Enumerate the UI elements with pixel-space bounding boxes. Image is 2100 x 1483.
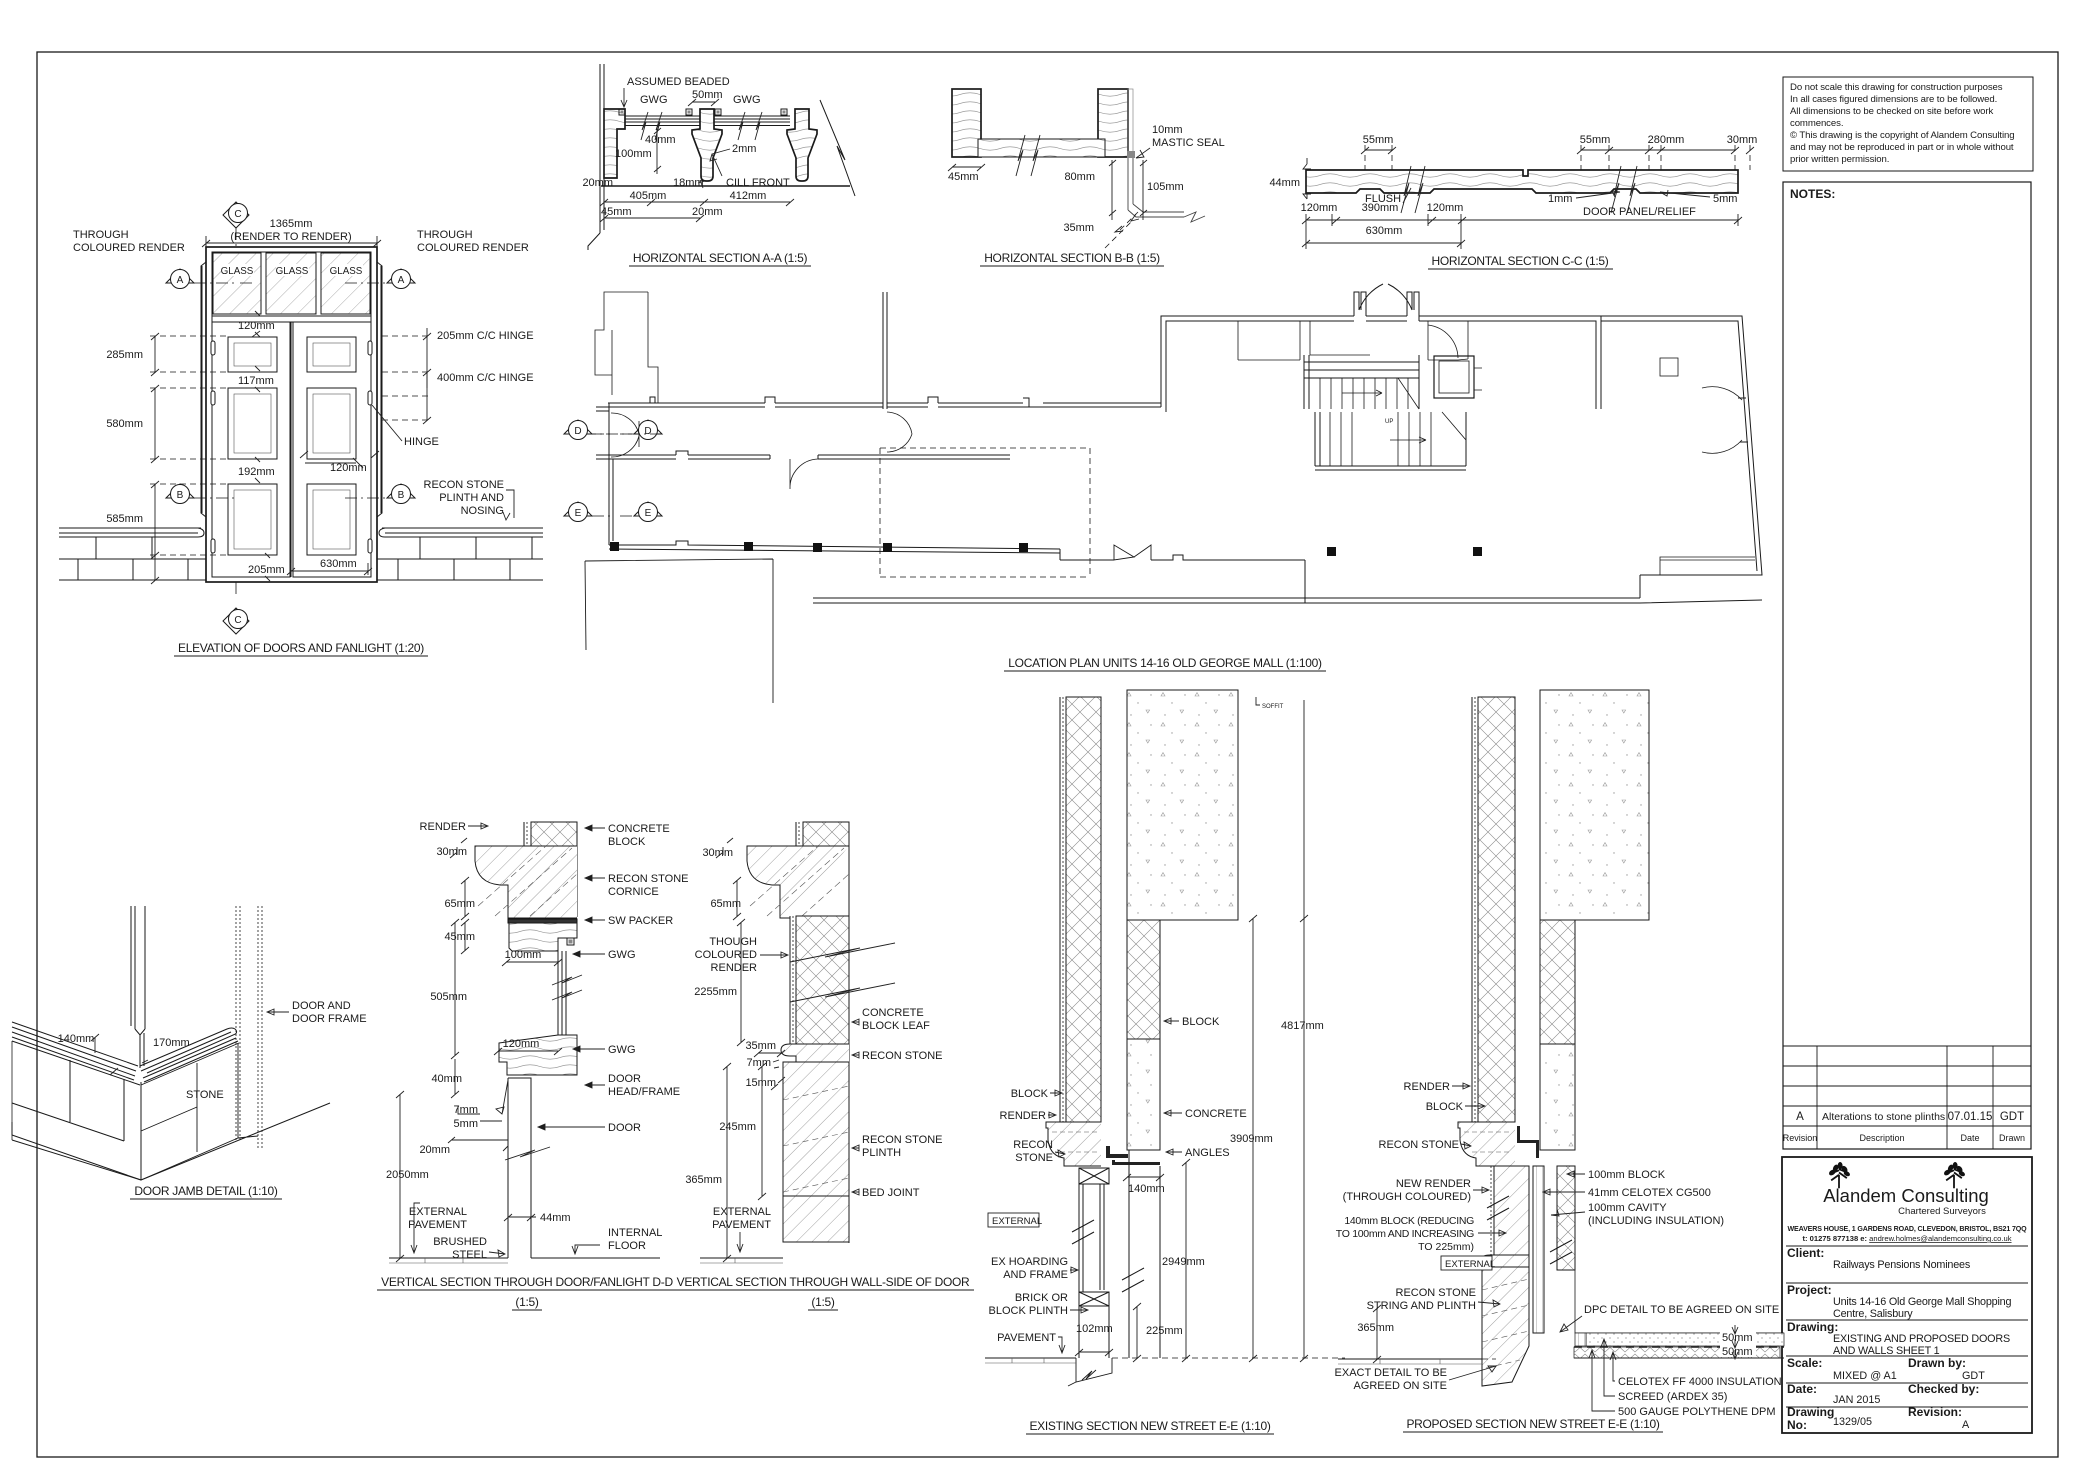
svg-text:140mm: 140mm [1128, 1183, 1165, 1195]
svg-text:35mm: 35mm [745, 1040, 776, 1052]
svg-text:50mm: 50mm [1722, 1346, 1753, 1358]
svg-text:BRUSHED: BRUSHED [433, 1236, 487, 1248]
svg-text:DPC DETAIL TO BE AGREED ON SIT: DPC DETAIL TO BE AGREED ON SITE [1584, 1304, 1779, 1316]
svg-text:BLOCK PLINTH: BLOCK PLINTH [989, 1305, 1069, 1317]
svg-text:Do not scale this drawing for: Do not scale this drawing for constructi… [1790, 82, 2003, 93]
svg-text:GDT: GDT [1962, 1370, 1985, 1382]
svg-text:BLOCK: BLOCK [1011, 1088, 1049, 1100]
svg-text:EXTERNAL: EXTERNAL [1445, 1259, 1495, 1270]
svg-text:NEW RENDER: NEW RENDER [1396, 1178, 1471, 1190]
svg-text:BLOCK: BLOCK [1182, 1016, 1220, 1028]
svg-text:BRICK OR: BRICK OR [1015, 1292, 1068, 1304]
svg-text:THROUGH: THROUGH [73, 229, 129, 241]
svg-text:STONE: STONE [186, 1089, 224, 1101]
svg-text:HORIZONTAL SECTION C-C (1:5): HORIZONTAL SECTION C-C (1:5) [1432, 254, 1609, 268]
svg-text:Date:: Date: [1787, 1382, 1817, 1396]
svg-text:Units 14-16 Old George Mall Sh: Units 14-16 Old George Mall Shopping [1833, 1296, 2011, 1308]
svg-text:630mm: 630mm [320, 558, 357, 570]
svg-text:65mm: 65mm [710, 898, 741, 910]
svg-text:120mm: 120mm [503, 1038, 540, 1050]
svg-text:GLASS: GLASS [221, 266, 254, 277]
svg-text:7mm: 7mm [747, 1057, 771, 1069]
svg-text:Revision: Revision [1783, 1133, 1818, 1143]
svg-text:STEEL: STEEL [452, 1249, 487, 1261]
svg-text:365mm: 365mm [1357, 1322, 1394, 1334]
svg-text:RECON: RECON [1013, 1139, 1053, 1151]
svg-text:630mm: 630mm [1366, 225, 1403, 237]
svg-text:EXISTING SECTION NEW STREET E-: EXISTING SECTION NEW STREET E-E (1:10) [1029, 1419, 1270, 1433]
svg-text:No:: No: [1787, 1418, 1807, 1432]
svg-text:117mm: 117mm [238, 375, 274, 387]
svg-text:HORIZONTAL SECTION B-B (1:5): HORIZONTAL SECTION B-B (1:5) [984, 251, 1160, 265]
svg-text:ELEVATION OF DOORS AND FANLIGH: ELEVATION OF DOORS AND FANLIGHT (1:20) [178, 641, 424, 655]
svg-text:COLOURED RENDER: COLOURED RENDER [417, 242, 529, 254]
svg-text:THOUGH: THOUGH [709, 936, 757, 948]
svg-text:RENDER: RENDER [1404, 1081, 1451, 1093]
svg-text:EXTERNAL: EXTERNAL [992, 1216, 1042, 1227]
svg-text:505mm: 505mm [430, 991, 467, 1003]
svg-text:AGREED ON SITE: AGREED ON SITE [1353, 1380, 1447, 1392]
svg-text:55mm: 55mm [1363, 134, 1394, 146]
svg-text:EXACT DETAIL TO BE: EXACT DETAIL TO BE [1335, 1367, 1447, 1379]
svg-text:DOOR AND: DOOR AND [292, 1000, 351, 1012]
svg-text:2mm: 2mm [732, 143, 756, 155]
svg-text:120mm: 120mm [1301, 202, 1338, 214]
svg-text:VERTICAL SECTION THROUGH DOOR/: VERTICAL SECTION THROUGH DOOR/FANLIGHT D… [381, 1275, 673, 1289]
svg-text:192mm: 192mm [238, 466, 275, 478]
svg-text:5mm: 5mm [454, 1118, 478, 1130]
svg-text:65mm: 65mm [444, 898, 475, 910]
svg-text:205mm C/C HINGE: 205mm C/C HINGE [437, 330, 534, 342]
svg-text:GWG: GWG [640, 94, 668, 106]
svg-text:GWG: GWG [608, 1044, 636, 1056]
svg-text:102mm: 102mm [1076, 1323, 1113, 1335]
svg-text:DOOR: DOOR [608, 1073, 641, 1085]
svg-text:DOOR FRAME: DOOR FRAME [292, 1013, 367, 1025]
svg-text:and may not be reproduced in p: and may not be reproduced in part or in … [1790, 142, 2014, 153]
svg-text:Alterations to stone plinths: Alterations to stone plinths [1822, 1111, 1945, 1123]
svg-text:GLASS: GLASS [276, 266, 309, 277]
svg-text:3909mm: 3909mm [1230, 1133, 1273, 1145]
svg-text:RENDER: RENDER [420, 821, 467, 833]
svg-text:RECON STONE: RECON STONE [424, 479, 504, 491]
svg-text:Drawing: Drawing [1787, 1405, 1834, 1419]
svg-text:Drawing:: Drawing: [1787, 1320, 1838, 1334]
svg-text:(1:5): (1:5) [515, 1295, 538, 1309]
svg-text:Chartered Surveyors: Chartered Surveyors [1898, 1206, 1986, 1217]
svg-text:40mm: 40mm [645, 134, 676, 146]
svg-text:In all cases figured dimension: In all cases figured dimensions are to b… [1790, 94, 1997, 105]
svg-text:35mm: 35mm [1063, 222, 1094, 234]
svg-text:(INCLUDING INSULATION): (INCLUDING INSULATION) [1588, 1215, 1724, 1227]
svg-text:A: A [1796, 1111, 1804, 1123]
svg-text:Alandem Consulting: Alandem Consulting [1823, 1185, 1989, 1206]
svg-text:Project:: Project: [1787, 1283, 1832, 1297]
svg-text:MASTIC SEAL: MASTIC SEAL [1152, 137, 1225, 149]
svg-text:Date: Date [1960, 1133, 1979, 1143]
svg-text:SOFFIT: SOFFIT [1262, 704, 1284, 710]
svg-text:t: 01275 877138 e: andrew.hol: t: 01275 877138 e: andrew.holmes@alandem… [1802, 1234, 2011, 1243]
svg-text:prior written permission.: prior written permission. [1790, 154, 1889, 165]
svg-text:390mm: 390mm [1362, 202, 1399, 214]
svg-text:Description: Description [1859, 1133, 1904, 1143]
svg-text:A: A [398, 275, 405, 286]
svg-text:DOOR PANEL/RELIEF: DOOR PANEL/RELIEF [1583, 206, 1696, 218]
svg-text:LOCATION PLAN UNITS 14-16 OLD: LOCATION PLAN UNITS 14-16 OLD GEORGE MAL… [1008, 656, 1322, 670]
svg-text:30mm: 30mm [702, 847, 733, 859]
svg-text:NOTES:: NOTES: [1790, 187, 1835, 201]
svg-text:GDT: GDT [2000, 1111, 2024, 1123]
svg-text:15mm: 15mm [745, 1077, 776, 1089]
svg-text:4817mm: 4817mm [1281, 1020, 1324, 1032]
svg-text:Checked by:: Checked by: [1908, 1382, 1979, 1396]
svg-text:© This drawing is the copyrigh: © This drawing is the copyright of Aland… [1790, 130, 2015, 141]
svg-text:205mm: 205mm [248, 564, 285, 576]
svg-text:(1:5): (1:5) [811, 1295, 834, 1309]
svg-text:All dimensions to be checked o: All dimensions to be checked on site bef… [1790, 106, 1993, 117]
svg-text:HEAD/FRAME: HEAD/FRAME [608, 1086, 680, 1098]
svg-text:COLOURED: COLOURED [695, 949, 757, 961]
svg-text:120mm: 120mm [330, 462, 367, 474]
svg-text:44mm: 44mm [1269, 177, 1300, 189]
svg-text:CILL FRONT: CILL FRONT [726, 177, 790, 189]
svg-text:365mm: 365mm [685, 1174, 722, 1186]
svg-text:PROPOSED SECTION NEW STREET E-: PROPOSED SECTION NEW STREET E-E (1:10) [1406, 1417, 1659, 1431]
svg-text:E: E [645, 508, 652, 519]
svg-text:EXTERNAL: EXTERNAL [713, 1206, 771, 1218]
svg-text:TO 225mm): TO 225mm) [1418, 1241, 1474, 1253]
svg-text:105mm: 105mm [1147, 181, 1184, 193]
svg-text:1mm: 1mm [1548, 193, 1572, 205]
svg-text:CONCRETE: CONCRETE [1185, 1108, 1247, 1120]
svg-text:1365mm: 1365mm [270, 218, 313, 230]
svg-text:C: C [234, 615, 241, 626]
svg-text:INTERNAL: INTERNAL [608, 1227, 662, 1239]
svg-text:07.01.15: 07.01.15 [1948, 1111, 1993, 1123]
svg-text:2949mm: 2949mm [1162, 1256, 1205, 1268]
svg-text:RENDER: RENDER [1000, 1110, 1047, 1122]
svg-text:100mm BLOCK: 100mm BLOCK [1588, 1169, 1666, 1181]
svg-text:1329/05: 1329/05 [1833, 1416, 1872, 1428]
svg-text:2050mm: 2050mm [386, 1169, 429, 1181]
svg-text:E: E [575, 508, 582, 519]
svg-text:45mm: 45mm [601, 206, 632, 218]
svg-text:SCREED (ARDEX 35): SCREED (ARDEX 35) [1618, 1391, 1727, 1403]
svg-text:CONCRETE: CONCRETE [608, 823, 670, 835]
svg-text:FLOOR: FLOOR [608, 1240, 646, 1252]
svg-text:VERTICAL SECTION THROUGH WALL-: VERTICAL SECTION THROUGH WALL-SIDE OF DO… [677, 1275, 970, 1289]
svg-text:RECON STONE: RECON STONE [1396, 1287, 1476, 1299]
svg-text:585mm: 585mm [106, 513, 143, 525]
svg-text:C: C [234, 209, 241, 220]
svg-text:GWG: GWG [608, 949, 636, 961]
svg-text:A: A [177, 275, 184, 286]
svg-text:10mm: 10mm [1152, 124, 1183, 136]
svg-text:HINGE: HINGE [404, 436, 439, 448]
svg-text:2255mm: 2255mm [694, 986, 737, 998]
svg-text:B: B [398, 490, 405, 501]
svg-text:COLOURED RENDER: COLOURED RENDER [73, 242, 185, 254]
svg-text:AND FRAME: AND FRAME [1003, 1269, 1068, 1281]
svg-text:Scale:: Scale: [1787, 1356, 1822, 1370]
svg-text:PLINTH: PLINTH [862, 1147, 901, 1159]
svg-text:20mm: 20mm [582, 177, 613, 189]
svg-text:120mm: 120mm [1427, 202, 1464, 214]
svg-text:D: D [574, 426, 581, 437]
svg-text:SW PACKER: SW PACKER [608, 915, 673, 927]
svg-text:HORIZONTAL SECTION A-A (1:5): HORIZONTAL SECTION A-A (1:5) [633, 251, 808, 265]
svg-text:D: D [644, 426, 651, 437]
svg-text:UP: UP [1385, 419, 1393, 425]
svg-text:Client:: Client: [1787, 1246, 1824, 1260]
svg-text:285mm: 285mm [106, 349, 143, 361]
svg-text:BED JOINT: BED JOINT [862, 1187, 920, 1199]
svg-text:JAN 2015: JAN 2015 [1833, 1394, 1880, 1406]
svg-text:45mm: 45mm [948, 171, 979, 183]
svg-text:MIXED @ A1: MIXED @ A1 [1833, 1370, 1897, 1382]
svg-text:A: A [1962, 1419, 1970, 1431]
svg-text:commences.: commences. [1790, 118, 1843, 129]
svg-text:STRING AND PLINTH: STRING AND PLINTH [1367, 1300, 1476, 1312]
svg-text:Revision:: Revision: [1908, 1405, 1962, 1419]
svg-text:RECON STONE: RECON STONE [1379, 1139, 1459, 1151]
svg-text:EXISTING AND PROPOSED DOORS: EXISTING AND PROPOSED DOORS [1833, 1333, 2010, 1345]
svg-text:ASSUMED BEADED: ASSUMED BEADED [627, 76, 730, 88]
svg-text:280mm: 280mm [1648, 134, 1685, 146]
svg-text:45mm: 45mm [444, 931, 475, 943]
svg-text:GWG: GWG [733, 94, 761, 106]
svg-text:30mm: 30mm [1727, 134, 1758, 146]
svg-text:DOOR: DOOR [608, 1122, 641, 1134]
svg-text:BLOCK: BLOCK [608, 836, 646, 848]
svg-text:412mm: 412mm [730, 190, 767, 202]
svg-text:140mm: 140mm [58, 1033, 95, 1045]
svg-text:B: B [177, 490, 184, 501]
svg-text:20mm: 20mm [692, 206, 723, 218]
svg-text:400mm C/C HINGE: 400mm C/C HINGE [437, 372, 534, 384]
svg-text:245mm: 245mm [719, 1121, 756, 1133]
svg-text:CELOTEX FF 4000 INSULATION: CELOTEX FF 4000 INSULATION [1618, 1376, 1782, 1388]
svg-text:120mm: 120mm [238, 320, 275, 332]
svg-text:THROUGH: THROUGH [417, 229, 473, 241]
svg-text:140mm BLOCK (REDUCING: 140mm BLOCK (REDUCING [1344, 1215, 1474, 1227]
svg-text:PAVEMENT: PAVEMENT [408, 1219, 467, 1231]
svg-text:NOSING: NOSING [461, 505, 504, 517]
svg-text:41mm CELOTEX CG500: 41mm CELOTEX CG500 [1588, 1187, 1711, 1199]
svg-text:EXTERNAL: EXTERNAL [409, 1206, 467, 1218]
svg-text:170mm: 170mm [153, 1037, 190, 1049]
svg-text:RENDER: RENDER [711, 962, 758, 974]
svg-text:CORNICE: CORNICE [608, 886, 659, 898]
svg-text:EX HOARDING: EX HOARDING [991, 1256, 1068, 1268]
svg-text:BLOCK: BLOCK [1426, 1101, 1464, 1113]
svg-text:Railways Pensions Nominees: Railways Pensions Nominees [1833, 1259, 1971, 1271]
svg-text:5mm: 5mm [1713, 193, 1737, 205]
svg-text:STONE: STONE [1015, 1152, 1053, 1164]
svg-text:RECON STONE: RECON STONE [862, 1050, 942, 1062]
svg-text:405mm: 405mm [630, 190, 667, 202]
svg-text:20mm: 20mm [419, 1144, 450, 1156]
svg-text:100mm: 100mm [615, 148, 652, 160]
svg-text:Centre, Salisbury: Centre, Salisbury [1833, 1308, 1913, 1320]
svg-text:40mm: 40mm [431, 1073, 462, 1085]
svg-text:(THROUGH COLOURED): (THROUGH COLOURED) [1343, 1191, 1471, 1203]
svg-text:50mm: 50mm [692, 89, 723, 101]
svg-text:PLINTH AND: PLINTH AND [439, 492, 504, 504]
svg-text:TO 100mm AND INCREASING: TO 100mm AND INCREASING [1336, 1228, 1474, 1240]
svg-text:100mm CAVITY: 100mm CAVITY [1588, 1202, 1667, 1214]
svg-text:RECON STONE: RECON STONE [862, 1134, 942, 1146]
svg-text:580mm: 580mm [106, 418, 143, 430]
svg-text:PAVEMENT: PAVEMENT [997, 1332, 1056, 1344]
svg-text:225mm: 225mm [1146, 1325, 1183, 1337]
svg-text:Drawn by:: Drawn by: [1908, 1356, 1966, 1370]
svg-text:DOOR JAMB DETAIL (1:10): DOOR JAMB DETAIL (1:10) [134, 1184, 277, 1198]
svg-text:(RENDER TO RENDER): (RENDER TO RENDER) [230, 231, 351, 243]
svg-text:ANGLES: ANGLES [1185, 1147, 1230, 1159]
svg-text:RECON STONE: RECON STONE [608, 873, 688, 885]
svg-text:GLASS: GLASS [330, 266, 363, 277]
svg-text:Drawn: Drawn [1999, 1133, 2025, 1143]
svg-text:44mm: 44mm [540, 1212, 571, 1224]
svg-text:PAVEMENT: PAVEMENT [712, 1219, 771, 1231]
svg-text:CONCRETE: CONCRETE [862, 1007, 924, 1019]
svg-text:BLOCK LEAF: BLOCK LEAF [862, 1020, 930, 1032]
svg-text:WEAVERS HOUSE, 1 GARDENS ROAD,: WEAVERS HOUSE, 1 GARDENS ROAD, CLEVEDON,… [1788, 1225, 2028, 1233]
svg-text:80mm: 80mm [1064, 171, 1095, 183]
svg-text:55mm: 55mm [1580, 134, 1611, 146]
